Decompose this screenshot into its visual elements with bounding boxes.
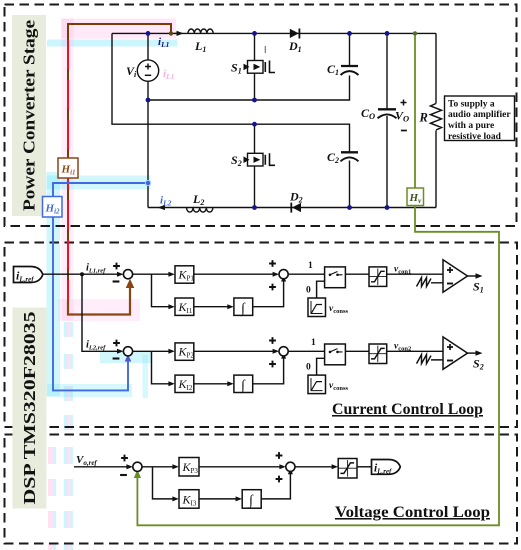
arrow into summer2 row1 bbox=[273, 272, 279, 277]
wire saturation to comparator row1 bbox=[387, 273, 443, 275]
wire comparator out S1 bbox=[468, 275, 480, 277]
wire summer2 to switch bbox=[288, 273, 324, 275]
wire C1 top bbox=[349, 33, 351, 66]
arrow iL2 bbox=[158, 205, 166, 210]
arrow iL1 bbox=[174, 32, 182, 34]
integrator row3 bbox=[242, 490, 261, 509]
sawtooth carrier row2 bbox=[417, 355, 444, 364]
wire Vi top bbox=[147, 33, 149, 60]
arrow into Vo summer2 bbox=[279, 464, 285, 469]
wire Co bottom bbox=[386, 116, 388, 208]
resistor R bbox=[431, 104, 442, 131]
svg-text:1: 1 bbox=[308, 261, 313, 271]
svg-text:audio amplifier: audio amplifier bbox=[448, 110, 511, 120]
node S1 source bbox=[252, 98, 257, 103]
wire Hv sense (green) bbox=[137, 33, 499, 525]
arrow into Ki1 bbox=[168, 304, 174, 309]
tag iL,ref output bbox=[372, 460, 401, 476]
svg-text:Voltage Control Loop: Voltage Control Loop bbox=[335, 504, 490, 521]
diode D2 bbox=[290, 203, 301, 213]
note box: to supply audio amplifier bbox=[445, 96, 515, 142]
svg-text:Current Control Loop: Current Control Loop bbox=[332, 401, 483, 418]
capacitor C1 bbox=[341, 66, 359, 75]
transistor S1 (MOSFET) bbox=[244, 46, 276, 73]
svg-text:1: 1 bbox=[311, 338, 316, 348]
wire switch to saturation row1 bbox=[345, 273, 369, 275]
saturation block voltage loop bbox=[338, 459, 357, 479]
highlighter dash columns bbox=[48, 322, 73, 550]
wire Vi down leg bbox=[147, 100, 149, 208]
wire Kp2 to summer2 bbox=[194, 350, 277, 352]
switch block row2 bbox=[325, 344, 346, 365]
pink highlight along brown hook wire bbox=[58, 299, 140, 321]
node S2 drain bbox=[252, 122, 257, 127]
arrow into summer2 row2 bbox=[273, 349, 279, 354]
arrow up into summer2 row1 bbox=[281, 275, 286, 281]
gain Ki3 bbox=[179, 490, 199, 509]
sensor Hi2 bbox=[43, 197, 63, 218]
wire Ki1 to integrator bbox=[194, 306, 231, 308]
wire switch to saturation row2 bbox=[345, 350, 369, 352]
node S2 source bottom rail bbox=[252, 205, 257, 210]
switch block row1 bbox=[325, 267, 346, 288]
summer Vo bbox=[133, 462, 142, 471]
inductor L1 bbox=[188, 29, 213, 33]
wire integrator1 to summer2 bbox=[253, 281, 284, 307]
node Co top bbox=[385, 31, 390, 36]
cyan highlight along blue vertical wire bbox=[47, 172, 61, 396]
arrow into Kp3 bbox=[172, 464, 178, 469]
transistor S2 (MOSFET) bbox=[244, 153, 276, 166]
wire saturation to iLref tag bbox=[357, 466, 372, 468]
svg-text:R: R bbox=[419, 111, 428, 125]
wire Co branch bbox=[386, 33, 388, 109]
wire integrator3 to summer2 bbox=[261, 474, 290, 499]
wire vconss to switch row1 bbox=[317, 281, 325, 298]
wire Kp1 to summer2 bbox=[194, 273, 277, 275]
arrow green into Vo summer bbox=[134, 470, 141, 479]
sawtooth carrier row1 bbox=[417, 278, 444, 287]
wire saturation to comparator row2 bbox=[387, 350, 443, 352]
node Co bottom bbox=[385, 205, 390, 210]
node L1-S1-D1 bbox=[252, 31, 257, 36]
wire Kp3 to summer2 bbox=[199, 466, 283, 468]
node green tap bbox=[413, 31, 417, 35]
comparator row1 bbox=[443, 260, 468, 292]
integrator row2 bbox=[234, 375, 253, 393]
voltage control loop dashed box bbox=[5, 435, 518, 544]
arrow into summer row2 bbox=[117, 349, 123, 354]
node branch iLref bbox=[80, 272, 84, 276]
wire rail3 right to C2 bbox=[255, 124, 350, 152]
gain Kp2 bbox=[175, 343, 194, 360]
svg-text:Power Converter Stage: Power Converter Stage bbox=[20, 19, 39, 211]
comparator row2 bbox=[443, 337, 468, 369]
arrow brown into iL1 summer bbox=[126, 279, 135, 288]
wire integrator2 to summer2 bbox=[253, 358, 284, 384]
svg-text:with a pure: with a pure bbox=[448, 121, 494, 131]
current control loop dashed box bbox=[5, 243, 518, 428]
summer 2 row1 bbox=[279, 270, 288, 279]
wire S2 source bbox=[254, 166, 256, 208]
wire left loop vertical bbox=[112, 33, 255, 124]
wire summer to Kp3 and branch bbox=[142, 467, 176, 499]
wire R branch bottom bbox=[435, 131, 437, 208]
node C2 bottom bbox=[347, 205, 352, 210]
arrow into Kp2 bbox=[168, 349, 174, 354]
power converter stage dashed box bbox=[5, 5, 517, 227]
arrow blue into iL2 summer bbox=[125, 354, 132, 361]
gain Kp1 bbox=[175, 266, 194, 283]
svg-text:To supply a: To supply a bbox=[448, 99, 495, 109]
capacitor Co bbox=[378, 109, 397, 118]
wire C2 bottom bbox=[349, 161, 351, 208]
integrator row1 bbox=[234, 298, 253, 317]
summer 1 row2 bbox=[123, 347, 132, 356]
wire summer1 to Kp1 and branch bbox=[133, 274, 172, 307]
wire S1 source bbox=[254, 73, 256, 100]
summer 2 row2 bbox=[279, 347, 288, 356]
tag iL,ref input bbox=[14, 267, 43, 284]
wire S2 drain bbox=[254, 124, 256, 153]
svg-text:0: 0 bbox=[306, 363, 311, 373]
wire S1 drain bbox=[254, 33, 256, 60]
wire summer2 to switch row2 bbox=[288, 350, 324, 352]
wire rail2 bbox=[148, 76, 350, 101]
sensor Hi1 bbox=[58, 158, 78, 178]
saturation block row2 bbox=[369, 344, 387, 364]
summer 1 row1 bbox=[123, 270, 132, 279]
diode D1 bbox=[290, 29, 301, 39]
arrow into integrator2 bbox=[227, 381, 233, 386]
wire vconss to switch row2 bbox=[317, 358, 325, 375]
saturation block row1 bbox=[369, 267, 387, 287]
label Power Converter Stage bbox=[12, 15, 46, 216]
svg-text:0: 0 bbox=[306, 286, 311, 296]
pink highlight along top brown wire bbox=[61, 19, 176, 39]
gain Kp3 bbox=[179, 458, 199, 477]
wire top rail bbox=[112, 32, 436, 34]
wire Ki3 to integrator bbox=[199, 498, 239, 500]
wire Ki2 to integrator bbox=[194, 383, 231, 385]
cyan highlight small vertical below row2 junction bbox=[143, 355, 149, 398]
soft-start block vconss row1 bbox=[308, 298, 326, 317]
cyan highlight along blue horizontal wire top bbox=[47, 176, 151, 190]
gain Ki1 bbox=[175, 298, 194, 315]
wire Hi2 sense (blue) bbox=[53, 183, 148, 390]
arrow into Vo summer bbox=[126, 464, 132, 469]
label DSP TMS320F28035 bbox=[12, 308, 46, 509]
arrow into Ki3 bbox=[172, 496, 178, 501]
cyan highlight blue lower horizontal bbox=[47, 384, 132, 397]
arrow into integrator1 bbox=[227, 304, 233, 309]
arrow into summer1 bbox=[117, 272, 123, 277]
arrow into Kp1 bbox=[168, 272, 174, 277]
wire comparator out S2 bbox=[468, 352, 480, 354]
capacitor C2 bbox=[341, 152, 359, 161]
wire Vi bottom bbox=[147, 81, 149, 100]
summer 2 voltage loop bbox=[286, 462, 295, 471]
node D1-C1 bbox=[347, 31, 352, 36]
wire summer2 to saturation bbox=[295, 466, 335, 468]
wire branch down to row2 bbox=[82, 274, 121, 351]
sensor Hv bbox=[407, 188, 424, 206]
arrow up into Vo summer2 bbox=[288, 468, 293, 474]
gain Ki2 bbox=[175, 375, 194, 392]
arrow into integrator3 bbox=[236, 496, 242, 501]
arrow up into summer2 row2 bbox=[281, 352, 286, 358]
wire summer1 to Kp2 and branch bbox=[133, 351, 172, 384]
node Vi+ top bbox=[146, 31, 151, 36]
wire Hi1 sense (brown + red dashes) bbox=[68, 24, 171, 315]
cyan highlight under top rail bbox=[47, 40, 177, 47]
cyan highlight near iL2 summing row bbox=[100, 352, 152, 364]
label +Vo- bbox=[395, 100, 409, 131]
wire iLref to summer1 bbox=[43, 273, 122, 275]
arrow into saturation3 bbox=[332, 464, 338, 469]
voltage source V1 bbox=[137, 60, 158, 81]
pink highlight along red vertical wire bbox=[62, 19, 74, 321]
soft-start block vconss row2 bbox=[308, 375, 326, 394]
wire Vo,ref underline into summer bbox=[74, 466, 130, 468]
arrow into Ki2 bbox=[168, 381, 174, 386]
wire R branch top bbox=[435, 33, 437, 103]
node Vi- rail2 bbox=[146, 98, 151, 103]
node blue tap bbox=[145, 180, 150, 185]
wire bottom rail bbox=[148, 207, 436, 209]
node brown tap bbox=[169, 31, 173, 35]
svg-text:DSP TMS320F28035: DSP TMS320F28035 bbox=[20, 312, 39, 505]
svg-text:resistive load: resistive load bbox=[448, 132, 502, 142]
inductor L2 bbox=[187, 208, 213, 213]
